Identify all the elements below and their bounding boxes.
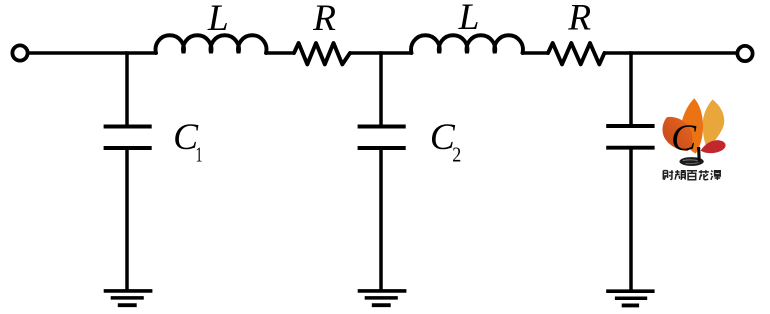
inductor L2 bbox=[411, 35, 523, 53]
ground (C1 branch) bbox=[104, 289, 153, 293]
capacitor C1 bottom plate bbox=[104, 146, 152, 150]
wire: C3 to ground bbox=[629, 150, 633, 292]
wire: R2 to node C bbox=[603, 51, 631, 55]
watermark logo: middle orange petal bbox=[681, 98, 703, 153]
svg-text:L: L bbox=[207, 0, 229, 39]
ground (C3 branch) bbox=[606, 289, 654, 293]
capacitor C2 bottom plate bbox=[358, 146, 406, 150]
wire: node B down to C2 bbox=[379, 51, 383, 124]
resistor R2 bbox=[548, 43, 604, 64]
svg-text:2: 2 bbox=[452, 143, 461, 167]
svg-text:C: C bbox=[671, 118, 697, 159]
resistor R1 bbox=[294, 43, 350, 64]
svg-text:R: R bbox=[312, 0, 336, 39]
watermark logo: stem bbox=[697, 147, 701, 161]
capacitor C3 top plate bbox=[606, 124, 654, 128]
wire: C2 to ground bbox=[379, 150, 383, 291]
node B junction bbox=[379, 51, 412, 55]
char 频 bbox=[675, 170, 686, 180]
node C junction bbox=[629, 51, 737, 55]
watermark logo: disc base bbox=[679, 157, 703, 166]
watermark logo: crimson leaf bbox=[701, 140, 726, 153]
wire: C1 to ground bbox=[125, 150, 129, 291]
watermark logo: right amber petal bbox=[703, 100, 725, 148]
right terminal (output port) bbox=[737, 46, 752, 61]
svg-text:L: L bbox=[458, 0, 480, 38]
capacitor C2 top plate bbox=[358, 125, 406, 129]
inductor L1 bbox=[156, 35, 267, 53]
char 潭 bbox=[711, 171, 721, 181]
capacitor C1 top plate bbox=[104, 125, 152, 129]
wire: input terminal to node A bbox=[29, 51, 127, 55]
wire: node A down to C1 bbox=[125, 51, 129, 124]
svg-text:1: 1 bbox=[196, 143, 203, 167]
wire: node C down to C3 bbox=[629, 51, 633, 124]
watermark logo: Chinese caption (hand-drawn glyphs) bbox=[663, 170, 721, 180]
char 射 bbox=[663, 170, 673, 180]
wire: R1 to node B bbox=[349, 51, 381, 55]
node A junction bbox=[125, 51, 156, 55]
left terminal (input port) bbox=[12, 45, 27, 60]
svg-text:R: R bbox=[567, 0, 591, 38]
char 百 bbox=[687, 171, 697, 180]
wire: L1 to R1 bbox=[266, 51, 295, 55]
ground (C2 branch) bbox=[358, 289, 407, 293]
char 花 bbox=[699, 170, 709, 180]
capacitor C3 bottom plate bbox=[606, 146, 654, 150]
watermark logo: left red-orange petal bbox=[662, 117, 692, 151]
wire: L2 to R2 bbox=[523, 51, 550, 55]
